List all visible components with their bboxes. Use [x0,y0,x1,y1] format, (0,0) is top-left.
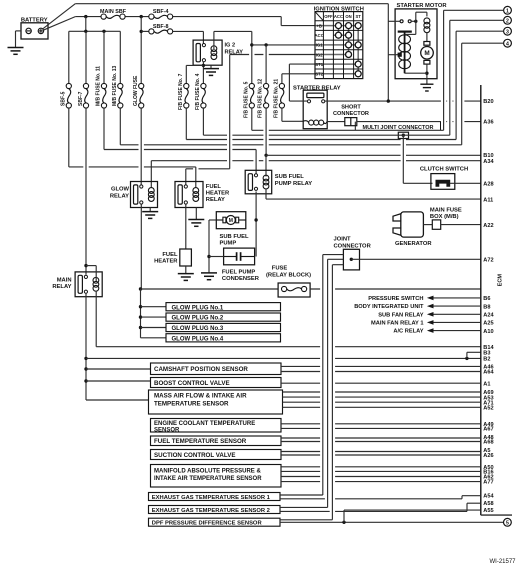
sensor camshaft position [86,368,151,370]
wire band line 2: F/B No.4 to off-page 2 [202,108,204,135]
wire top battery line to starter motor [75,3,388,5]
svg-text:ST: ST [356,14,362,19]
svg-text:HEATER: HEATER [206,190,230,196]
svg-text:1: 1 [506,8,509,14]
wire plunger link [415,21,417,34]
svg-text:CLUTCH SWITCH: CLUTCH SWITCH [420,167,468,173]
svg-text:M/B FUSE No. 13: M/B FUSE No. 13 [112,65,118,106]
wire sub fuel pump relay coil to A11 [265,188,267,199]
wire multi joint connector to clutch switch [403,182,432,184]
svg-text:IG1: IG1 [316,43,323,48]
glow plug No.4 [166,334,281,342]
svg-text:A55: A55 [483,508,493,514]
wire A34 to glow relay coil [151,160,481,162]
wire band line 1: F/B No.5 to off-page 1 [251,108,253,130]
svg-text:EXHAUST GAS TEMPERATURE SENSOR: EXHAUST GAS TEMPERATURE SENSOR 2 [152,508,270,514]
svg-text:A77: A77 [483,480,493,486]
off-page connector 2 [504,16,512,24]
wire joint connector branch 3 [332,264,343,266]
svg-text:3: 3 [506,29,509,35]
svg-text:CONDENSER: CONDENSER [222,276,260,282]
wire joint connector branch 2 [328,258,344,260]
wire IG2 relay coil to IG1 [213,31,215,49]
svg-text:ENGINE COOLANT TEMPERATURE: ENGINE COOLANT TEMPERATURE [154,421,255,427]
svg-text:MANIFOLD ABSOLUTE PRESSURE &: MANIFOLD ABSOLUTE PRESSURE & [154,468,261,474]
svg-text:FUEL TEMPERATURE SENSOR: FUEL TEMPERATURE SENSOR [154,438,247,445]
svg-text:CAMSHAFT POSITION SENSOR: CAMSHAFT POSITION SENSOR [154,366,248,373]
off-page connector 3 [504,27,512,35]
svg-text:CONNECTOR: CONNECTOR [334,243,372,249]
svg-text:RELAY: RELAY [206,197,225,203]
svg-text:OFF: OFF [324,14,333,19]
wire multi joint connector to clutch [402,135,404,183]
sensor mass air flow [86,399,149,401]
svg-text:SUB FAN RELAY: SUB FAN RELAY [378,312,424,318]
ignition switch contacts [335,23,341,29]
svg-text:IG 2: IG 2 [225,43,236,49]
wire plunger feed [388,54,399,56]
ground starter motor [420,83,433,85]
svg-text:WI-21577: WI-21577 [489,559,516,565]
sensor engine coolant temperature [151,419,282,433]
svg-text:+B: +B [316,23,321,28]
sensor exhaust gas temperature 1 [149,493,281,501]
sensor fuel temperature [151,436,282,446]
svg-text:SUB FUEL: SUB FUEL [220,234,249,240]
wire fuel heater relay contact to fuel heater [185,204,187,249]
svg-text:A24: A24 [483,313,494,319]
svg-text:ACC: ACC [334,14,343,19]
svg-text:F/B FUSE No. 12: F/B FUSE No. 12 [258,79,264,118]
svg-text:RELAY: RELAY [52,284,71,290]
svg-text:A1: A1 [483,381,490,387]
svg-text:F/B FUSE No. 5: F/B FUSE No. 5 [243,81,249,118]
svg-text:GLOW PLUG No.1: GLOW PLUG No.1 [172,305,224,311]
wire joint connector branch 1 [323,254,344,256]
svg-text:EXHAUST GAS TEMPERATURE SENSOR: EXHAUST GAS TEMPERATURE SENSOR 1 [152,495,271,501]
ignition switch column bars [337,26,339,36]
wire B2 B3 [86,357,481,359]
wire battery to ground [16,30,22,32]
relay sub fuel pump relay [245,170,272,194]
svg-text:MAIN: MAIN [57,278,72,284]
wire sub fuel pump relay contact down [255,192,257,257]
wire B10 [265,108,267,155]
svg-text:FUEL PUMP: FUEL PUMP [222,269,256,275]
svg-text:ECM: ECM [497,274,503,287]
wire IG2 row [230,54,315,56]
svg-text:M/B FUSE No. 11: M/B FUSE No. 11 [96,66,102,106]
wire A22 [441,224,481,226]
valve suction control [151,450,282,460]
off-page connector 5 [504,518,512,526]
relay IG2 [193,40,222,65]
svg-text:SBF-8: SBF-8 [153,24,169,30]
wire A72 [351,258,481,260]
solenoid coil starter [424,18,430,24]
wire B14 from main relay coil [95,292,97,347]
svg-text:SUCTION CONTROL VALVE: SUCTION CONTROL VALVE [154,452,235,459]
starter plunger [398,31,412,33]
glow plug No.2 [166,313,281,321]
svg-text:MASS AIR FLOW & INTAKE AIR: MASS AIR FLOW & INTAKE AIR [154,392,247,399]
fuel heater [180,249,192,266]
ground fuel heater [185,266,187,274]
wire B20 [325,100,481,102]
svg-text:A10: A10 [483,329,493,335]
svg-text:HEATER: HEATER [154,258,178,264]
fuel pump condenser [224,248,255,265]
svg-text:JOINT: JOINT [334,237,352,243]
wire A28 [450,182,481,184]
wire IG2 to fuel heater relay contact [186,168,230,170]
svg-text:A28: A28 [483,182,493,188]
wire M/B No.11 to sub fuel pump relay [103,108,105,149]
svg-text:B3: B3 [483,351,490,357]
sub fuel pump [216,212,246,229]
wire sub fuel pump left to ground [209,219,216,221]
svg-text:ST1: ST1 [315,62,323,67]
svg-text:SHORT: SHORT [341,105,361,111]
svg-text:FUEL: FUEL [162,252,178,258]
wire starter motor bottom [405,72,427,74]
svg-text:RELAY: RELAY [110,193,129,199]
svg-text:A68: A68 [483,440,493,446]
svg-text:MAIN FAN RELAY 1: MAIN FAN RELAY 1 [371,320,423,326]
wire band line 4: M/B No.13 to off-page 4 [119,108,121,145]
svg-text:5: 5 [506,520,509,526]
svg-text:A22: A22 [483,223,493,229]
svg-text:SENSOR: SENSOR [154,427,180,433]
svg-text:A67: A67 [483,427,493,433]
svg-text:B20: B20 [483,99,493,105]
svg-text:A72: A72 [483,258,493,264]
relay main relay [75,272,102,297]
svg-text:FUEL: FUEL [206,184,222,190]
svg-text:ON: ON [345,14,351,19]
svg-text:IG2: IG2 [316,52,323,57]
svg-text:SBF-7: SBF-7 [78,91,84,106]
svg-text:INTAKE AIR TEMPERATURE SENSOR: INTAKE AIR TEMPERATURE SENSOR [154,476,262,482]
svg-text:BOX (M/B): BOX (M/B) [430,214,459,220]
svg-text:F/B FUSE No. 4: F/B FUSE No. 4 [195,73,201,110]
ground fuel heater relay coil [195,208,197,220]
wire SBF-5 to fuel heater relay coil [68,108,70,167]
svg-text:SBF-4: SBF-4 [153,9,169,15]
wire ST1 to starter relay [289,100,307,102]
svg-text:2: 2 [506,18,509,24]
glow plug No.3 [166,323,281,331]
wire main SBF line [75,16,101,18]
wire F/B No.21 to starter relay coil [281,108,283,121]
svg-text:GLOW PLUG No.3: GLOW PLUG No.3 [172,326,224,332]
svg-text:M: M [229,218,233,224]
svg-text:A64: A64 [483,370,494,376]
svg-text:STARTER MOTOR: STARTER MOTOR [397,3,448,9]
svg-text:B2: B2 [483,357,490,363]
wire glow relay output to glow plug bus [140,204,142,289]
wire band line 3: F/B No.7 to off-page 3 [185,108,187,139]
wire SBF-8 branch [140,17,142,84]
motor M starter [424,42,430,46]
svg-text:M: M [424,50,429,57]
svg-text:PUMP RELAY: PUMP RELAY [275,181,313,187]
svg-text:GLOW PLUG No.2: GLOW PLUG No.2 [172,316,224,322]
svg-text:A36: A36 [483,119,493,125]
wire solenoid coil feed [415,12,417,21]
wire IG1 row [252,44,315,46]
svg-text:GLOW FUSE: GLOW FUSE [133,75,139,106]
wire IG2 contact to F/B fuses [202,62,204,84]
glow plug bus [139,287,142,290]
ground glow relay [149,208,151,212]
svg-text:F/B FUSE No. 7: F/B FUSE No. 7 [178,73,184,110]
svg-text:TEMPERATURE SENSOR: TEMPERATURE SENSOR [154,401,229,408]
wire main relay feeds [84,264,87,267]
off-page connector 4 [504,39,512,47]
battery B1 [21,23,48,39]
svg-text:A54: A54 [483,494,494,500]
wire battery diagonals [43,4,76,29]
wire ST2 row [282,73,315,75]
wire starter contact feed [388,20,400,22]
ground sub fuel pump [201,272,217,274]
svg-text:CONNECTOR: CONNECTOR [333,111,369,117]
svg-text:A52: A52 [483,406,493,412]
svg-text:DPF PRESSURE DIFFERENCE SENSOR: DPF PRESSURE DIFFERENCE SENSOR [152,521,263,527]
sensor boost control valve [86,380,151,382]
starter relay coil [309,120,314,125]
svg-text:GLOW: GLOW [111,186,130,192]
svg-text:PUMP: PUMP [220,240,237,246]
svg-text:A/C RELAY: A/C RELAY [393,329,423,335]
svg-text:ACC: ACC [315,33,324,38]
sensor DPF pressure difference [149,518,281,526]
svg-text:A11: A11 [483,197,493,203]
multi joint connector label box [354,122,356,131]
sensor exhaust gas temperature 2 [149,506,281,514]
generator [393,214,401,236]
svg-text:A26: A26 [483,453,493,459]
svg-text:MAIN FUSE: MAIN FUSE [430,207,462,213]
svg-text:SBF-5: SBF-5 [61,91,67,106]
ground IG2 relay [210,65,212,68]
svg-text:4: 4 [506,41,509,47]
svg-text:GLOW PLUG No.4: GLOW PLUG No.4 [172,336,224,342]
wire M/B bus [85,17,87,32]
wire main relay contact bus [85,294,87,400]
svg-text:F/B FUSE No. 21: F/B FUSE No. 21 [274,79,280,118]
ground battery [8,47,24,49]
wire A73 [310,288,481,290]
svg-text:B8: B8 [483,304,490,310]
svg-text:BODY INTEGRATED UNIT: BODY INTEGRATED UNIT [354,304,424,310]
wire glow fuse to glow relay [140,108,142,186]
ignition switch row wires [315,25,358,27]
svg-text:A25: A25 [483,321,493,327]
svg-text:GENERATOR: GENERATOR [395,241,432,247]
svg-text:FUSE: FUSE [272,266,288,272]
svg-text:B6: B6 [483,296,490,302]
ECM rail [480,85,482,515]
relay glow relay [131,182,158,208]
off-page connector 1 [504,6,512,14]
multi joint connector [398,132,408,138]
svg-text:A34: A34 [483,159,494,165]
svg-text:BATTERY: BATTERY [21,17,48,23]
svg-text:SUB FUEL: SUB FUEL [275,174,304,180]
relay fuel heater relay [175,182,203,208]
svg-text:A58: A58 [483,501,493,507]
svg-text:PRESSURE SWITCH: PRESSURE SWITCH [368,296,423,302]
wire SBF-7 to main relay [85,108,87,275]
svg-text:(RELAY BLOCK): (RELAY BLOCK) [266,273,311,279]
sensor manifold absolute pressure [151,465,282,488]
svg-text:ST2: ST2 [315,72,323,77]
wire to ignition +B [280,17,282,26]
wire ST1 row [289,63,315,65]
wire A36 [357,121,481,123]
glow plug No.1 [166,303,281,311]
svg-text:BOOST CONTROL VALVE: BOOST CONTROL VALVE [154,380,230,387]
